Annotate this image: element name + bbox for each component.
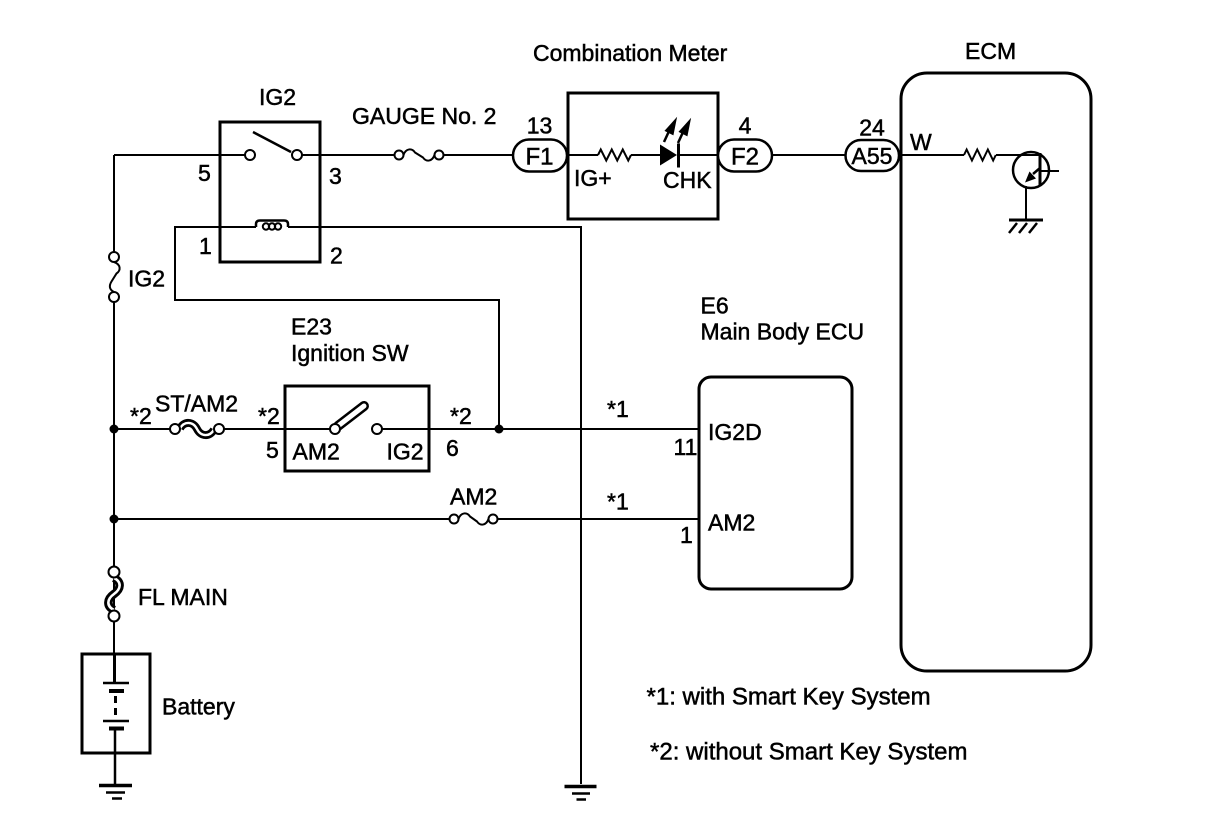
svg-text:IG+: IG+: [574, 165, 612, 191]
svg-text:F2: F2: [731, 144, 759, 171]
svg-text:*1: with Smart Key System: *1: with Smart Key System: [647, 684, 931, 711]
svg-text:CHK: CHK: [663, 167, 712, 193]
svg-text:A55: A55: [852, 143, 893, 169]
svg-text:Combination Meter: Combination Meter: [533, 40, 728, 66]
svg-text:ST/AM2: ST/AM2: [155, 391, 238, 417]
svg-text:AM2: AM2: [450, 484, 497, 510]
svg-text:4: 4: [739, 113, 752, 139]
svg-text:6: 6: [446, 435, 459, 461]
svg-text:5: 5: [266, 437, 279, 463]
svg-text:3: 3: [329, 163, 342, 189]
svg-text:*1: *1: [607, 396, 629, 422]
svg-text:13: 13: [527, 113, 553, 139]
svg-text:W: W: [910, 129, 932, 155]
svg-text:Ignition SW: Ignition SW: [291, 340, 409, 366]
svg-text:24: 24: [859, 115, 885, 141]
svg-text:F1: F1: [525, 144, 553, 171]
svg-text:*2: *2: [258, 403, 280, 429]
svg-text:Main Body ECU: Main Body ECU: [701, 319, 865, 345]
svg-text:IG2: IG2: [128, 266, 165, 292]
svg-text:*2: without Smart Key System: *2: without Smart Key System: [650, 739, 967, 766]
svg-text:E6: E6: [701, 293, 729, 319]
svg-text:AM2: AM2: [708, 510, 755, 536]
svg-text:IG2: IG2: [387, 439, 424, 465]
svg-text:FL MAIN: FL MAIN: [138, 584, 228, 610]
svg-text:E23: E23: [291, 314, 332, 340]
svg-text:1: 1: [680, 522, 693, 548]
svg-text:AM2: AM2: [293, 439, 340, 465]
svg-text:11: 11: [674, 434, 698, 460]
svg-text:GAUGE No. 2: GAUGE No. 2: [352, 103, 496, 129]
svg-text:*2: *2: [450, 403, 472, 429]
svg-text:1: 1: [199, 233, 212, 259]
svg-text:IG2D: IG2D: [708, 419, 762, 445]
svg-text:2: 2: [330, 243, 343, 269]
svg-text:ECM: ECM: [965, 38, 1016, 64]
svg-text:5: 5: [198, 160, 211, 186]
svg-text:Battery: Battery: [162, 694, 235, 720]
svg-text:IG2: IG2: [259, 84, 296, 110]
svg-text:*2: *2: [130, 403, 152, 429]
svg-text:*1: *1: [607, 489, 629, 515]
